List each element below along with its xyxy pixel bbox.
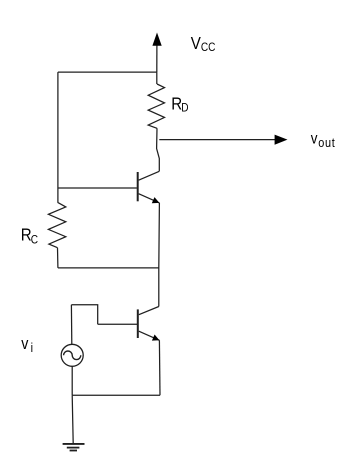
- label vi: [21, 335, 33, 355]
- wire RC bottom horizontal: [58, 267, 159, 269]
- wire Q2 base horizontal: [98, 323, 137, 325]
- label vout: [311, 131, 336, 150]
- resistor RC: [48, 202, 65, 247]
- label VCC: [191, 33, 216, 54]
- wire bottom horizontal: [72, 394, 160, 396]
- wire ground lead: [72, 395, 73, 444]
- label RD: [171, 93, 188, 115]
- transistor Q1: [138, 171, 160, 203]
- VCC power arrow: [152, 33, 161, 73]
- wire top horizontal: [58, 71, 157, 73]
- wire Q2 emitter vertical: [158, 340, 161, 395]
- output arrow: [159, 135, 287, 145]
- wire RC bottom lead: [57, 248, 59, 268]
- wire Q1 emitter to Q2 collector vertical: [158, 203, 161, 307]
- wire source top lead: [70, 305, 72, 345]
- label RC: [21, 224, 38, 246]
- wire RD top lead: [156, 72, 158, 84]
- svg-text:V: V: [191, 33, 201, 54]
- svg-text:out: out: [318, 135, 335, 150]
- svg-text:i: i: [31, 340, 33, 355]
- svg-text:CC: CC: [201, 41, 216, 54]
- wire Q2 base step: [71, 305, 97, 325]
- wire source bottom lead: [71, 366, 73, 395]
- transistor Q2: [138, 307, 160, 341]
- ground: [63, 444, 85, 451]
- resistor RD: [148, 84, 164, 128]
- wire RD bottom lead to Q1 collector: [157, 128, 160, 171]
- svg-text:v: v: [21, 335, 28, 353]
- wire Q1 base horizontal: [58, 187, 137, 189]
- source vi circle: [61, 344, 83, 366]
- svg-text:D: D: [181, 102, 188, 115]
- svg-text:v: v: [311, 131, 318, 148]
- wire left vertical: [57, 72, 59, 202]
- svg-text:C: C: [31, 234, 38, 247]
